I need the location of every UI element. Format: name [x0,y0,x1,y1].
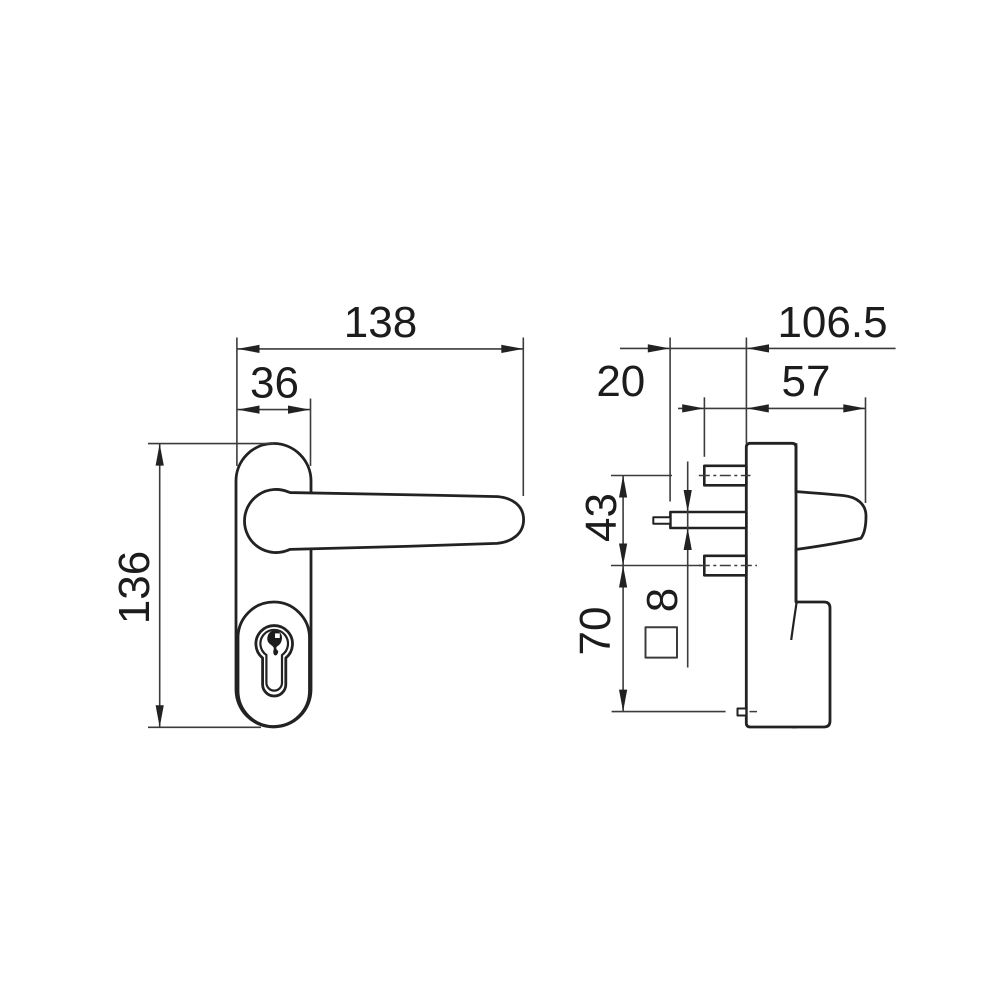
euro cylinder inner profile (front) [260,630,288,691]
cylinder boss (side) [792,602,830,727]
svg-text:138: 138 [344,298,417,347]
top fixing bolt (side) [704,466,746,486]
bottom bolt centerline [699,565,757,567]
dim 36 line [238,409,311,411]
dim 138 arrow left [238,345,260,353]
dim 36 arrow left [238,406,260,414]
square symbol for 8mm spindle [646,627,678,657]
dim 106.5 extension line left [669,338,671,502]
dim 70 arrow bottom [619,690,627,712]
cylinder boss oval (front) [238,602,310,727]
dim 8 arrow top [684,490,692,512]
spindle pin [653,517,670,523]
svg-text:43: 43 [577,493,626,542]
top bolt centerline [699,475,751,477]
lever handle (side) [792,492,866,550]
dim 20/57 line [678,407,866,409]
dim 138 extension line right [522,338,524,497]
svg-text:36: 36 [250,359,299,408]
dim 136 arrow bottom [156,705,164,727]
svg-text:57: 57 [782,357,831,406]
plate right face line (side) [795,443,798,602]
dim 106.5 extension line right [745,338,747,444]
dim 36 extension line right [310,399,312,467]
euro cylinder outer profile (front) [256,626,293,696]
dim 8 line [687,462,689,668]
dim 106.5 arrow left [648,344,670,352]
dim 70 line [622,566,624,712]
dim 20 extension line [703,397,705,457]
square spindle (side) [670,512,746,528]
dim 20 arrow [682,404,704,412]
dim 106.5 line [620,347,896,349]
dim 20/57 shared arrow [747,404,769,412]
dim 43 line [622,476,624,566]
dim 106.5 arrow right [747,344,769,352]
escutcheon plate (front) [236,444,311,728]
dim 43/70 extension line middle [611,565,702,567]
dim 136 extension line top [148,443,274,445]
bottom pin (side) [738,709,747,716]
bottom pin centerline dash [750,711,758,713]
key silhouette in cylinder [267,631,282,656]
dim 138 line [238,348,524,350]
dim 70 arrow top [619,566,627,588]
plate-boss blend curve (side) [791,603,796,641]
svg-text:70: 70 [571,607,620,656]
svg-text:136: 136 [110,551,159,624]
dim 43 extension line top [611,475,672,477]
dim 136 line [159,444,161,728]
svg-text:20: 20 [596,357,645,406]
dim 57 arrow right [843,404,865,412]
svg-text:106.5: 106.5 [777,298,887,347]
dim 43 arrow top [619,476,627,498]
key bow notch [275,633,280,638]
dim 136 arrow top [156,444,164,466]
dim 8 arrow bottom [684,528,692,550]
dim 70 extension line bottom [612,711,726,713]
dim 138 extension line left [236,338,238,467]
plate (side) [746,443,796,727]
dim 36 arrow right [288,406,310,414]
dim 138 arrow right [501,345,523,353]
dim 43 arrow bottom [619,544,627,566]
bottom fixing bolt (side) [704,556,746,576]
dim 57 extension line right [865,397,867,503]
svg-text:8: 8 [638,588,687,612]
lever handle (front) [245,489,524,552]
dim 136 extension line bottom [148,726,261,728]
